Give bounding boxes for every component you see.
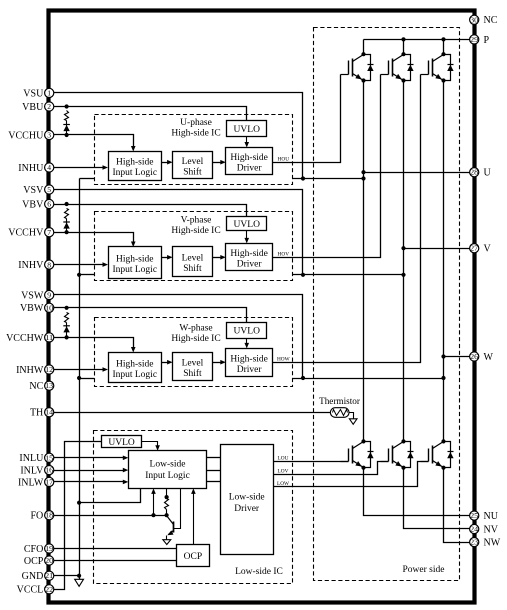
svg-text:4: 4 — [47, 163, 51, 172]
high-side input logic box U — [109, 152, 162, 181]
arrow input logic to level shift U — [162, 162, 169, 164]
low-side driver box — [221, 445, 274, 555]
level shift box W — [173, 353, 213, 381]
bootstrap diode W-phase — [66, 323, 68, 338]
wire GND from pin — [50, 575, 80, 577]
arrow UVLO to driver V — [246, 231, 248, 239]
node P rail col2 — [401, 37, 405, 41]
svg-text:5: 5 — [47, 185, 51, 194]
svg-text:INLW: INLW — [18, 477, 44, 488]
svg-text:26: 26 — [470, 353, 478, 361]
node VCCU junction — [65, 133, 69, 137]
wire INHW from pin into input logic — [50, 369, 105, 371]
wire W-phase IC COM stub — [80, 378, 95, 380]
svg-text:NU: NU — [484, 511, 499, 522]
svg-text:High-side: High-side — [116, 254, 153, 264]
wire LOU gate line — [274, 461, 349, 463]
pin 16 INLV — [45, 466, 54, 475]
svg-text:Driver: Driver — [237, 260, 263, 270]
svg-text:28: 28 — [470, 169, 478, 177]
node VSU drop junction — [301, 176, 305, 180]
node VCCW junction — [65, 335, 69, 339]
wire W-phase VS row to output column — [293, 378, 444, 380]
wire V mid column (emitter to low collector) — [403, 81, 405, 442]
svg-text:Power side: Power side — [403, 565, 445, 575]
pin 8 INHV — [45, 260, 54, 269]
pin 17 INLW — [45, 477, 54, 486]
svg-text:Input Logic: Input Logic — [112, 168, 157, 178]
svg-text:FO: FO — [31, 511, 44, 522]
wire VCCHV from pin into input logic — [50, 233, 134, 243]
wire FO pull-up from input logic — [166, 489, 168, 499]
svg-text:UVLO: UVLO — [108, 438, 135, 448]
wire U-phase VS row to output column — [293, 178, 364, 180]
svg-text:14: 14 — [45, 409, 53, 417]
svg-text:High-side: High-side — [230, 153, 267, 163]
wire W low emitter to NW pin — [444, 468, 475, 543]
node VBW junction — [65, 306, 69, 310]
thermistor body — [330, 408, 349, 418]
svg-text:HOW: HOW — [277, 356, 290, 362]
node U-phase VS row on column — [361, 176, 365, 180]
svg-text:Shift: Shift — [183, 166, 202, 177]
wire input logic to driver V — [207, 470, 221, 472]
ground arrow at FO transistor — [163, 540, 171, 545]
wire input logic to driver W — [207, 481, 221, 483]
wire W mid column (emitter to low collector) — [443, 81, 445, 442]
wire INLU from pin — [50, 457, 125, 459]
arrow UVLO to low-side input logic — [142, 442, 158, 447]
svg-text:19: 19 — [45, 545, 53, 553]
svg-text:27: 27 — [470, 245, 478, 253]
svg-text:High-side: High-side — [230, 354, 267, 364]
pin 23 NW — [470, 538, 479, 547]
node V-phase VS row on column — [401, 273, 405, 277]
wire U mid column (emitter to low collector) — [363, 81, 365, 442]
svg-text:Low-side: Low-side — [229, 492, 265, 502]
pin 29 P — [470, 35, 479, 44]
svg-text:VSW: VSW — [21, 290, 44, 301]
svg-text:Driver: Driver — [237, 365, 263, 375]
svg-text:High-side IC: High-side IC — [171, 334, 220, 344]
high-side driver box W — [226, 349, 273, 377]
svg-text:16: 16 — [45, 467, 53, 475]
wire resistor to FO line — [166, 510, 168, 516]
bootstrap resistor V-phase — [65, 209, 69, 219]
bootstrap diode V-phase — [66, 219, 68, 233]
pin 14 TH — [45, 408, 54, 417]
svg-text:NC: NC — [484, 15, 498, 26]
svg-text:Input Logic: Input Logic — [145, 471, 190, 481]
svg-text:13: 13 — [45, 382, 53, 390]
pin 27 V — [470, 244, 479, 253]
IGBT high-side W with freewheel diode — [421, 74, 429, 76]
pin 5 VSV — [45, 185, 54, 194]
wire VCCL from pin to UVLO — [50, 442, 102, 590]
node COM GND junction — [77, 574, 81, 578]
svg-text:Input Logic: Input Logic — [112, 265, 157, 275]
svg-text:8: 8 — [47, 260, 51, 269]
arrow input logic to level shift V — [162, 257, 169, 259]
svg-text:INLU: INLU — [19, 453, 44, 464]
svg-text:18: 18 — [45, 512, 53, 520]
svg-text:INHV: INHV — [18, 260, 44, 271]
wire VSV from pin to phase output node — [50, 190, 303, 275]
svg-text:W: W — [484, 352, 494, 363]
wire V high-side column — [403, 40, 405, 55]
arrow UVLO to driver W — [246, 339, 248, 344]
node W-phase VS row on column — [441, 376, 445, 380]
wire HOV gate line to high-side IGBT — [273, 75, 381, 258]
svg-text:17: 17 — [45, 478, 53, 486]
pin 3 VCCHU — [45, 130, 54, 139]
svg-text:23: 23 — [470, 539, 478, 547]
OCP box — [177, 545, 210, 567]
low-side IC dashed box — [94, 431, 293, 584]
pin 1 VSU — [45, 88, 54, 97]
svg-text:HOU: HOU — [278, 156, 290, 162]
svg-text:OCP: OCP — [24, 556, 44, 567]
svg-text:7: 7 — [47, 228, 51, 237]
svg-text:VSV: VSV — [23, 185, 44, 196]
svg-text:Low-side: Low-side — [150, 459, 186, 469]
wire input logic to driver U — [207, 457, 221, 459]
wire W output line — [444, 356, 475, 358]
ground arrow at GND — [75, 579, 84, 586]
wire HOW gate line to high-side IGBT — [273, 75, 421, 363]
svg-text:9: 9 — [47, 291, 51, 300]
pin 18 FO — [45, 511, 54, 520]
transistor Q1 open-collector FO — [167, 516, 174, 525]
node FO line resistor junction — [165, 513, 169, 517]
node VCCV junction — [65, 230, 69, 234]
pin 13 NC — [45, 381, 54, 390]
arrow level shift to driver W — [213, 362, 222, 364]
svg-text:Level: Level — [182, 253, 204, 263]
svg-text:VBU: VBU — [22, 102, 44, 113]
UVLO V-phase box — [227, 217, 267, 231]
svg-text:W-phase: W-phase — [179, 324, 212, 334]
wire INHV from pin into input logic — [50, 264, 105, 266]
svg-text:Driver: Driver — [237, 163, 263, 173]
svg-text:OCP: OCP — [184, 552, 202, 562]
svg-text:CFO: CFO — [24, 544, 43, 555]
wire VBU from pin to UVLO — [50, 107, 247, 121]
svg-text:TH: TH — [30, 408, 43, 419]
node COM stub junction V — [77, 273, 81, 277]
bootstrap resistor U-phase — [65, 111, 69, 121]
svg-text:VBW: VBW — [20, 303, 44, 314]
svg-text:VCCHV: VCCHV — [8, 228, 44, 239]
wire INHU from pin into input logic — [50, 167, 105, 169]
pin 10 VBW — [45, 303, 54, 312]
wire VCCHW from pin into input logic — [50, 338, 134, 349]
arrow input logic to level shift W — [162, 362, 169, 364]
svg-text:Thermistor: Thermistor — [319, 396, 360, 406]
IGBT low-side U with freewheel diode — [341, 461, 349, 463]
svg-text:22: 22 — [45, 586, 53, 594]
wire W high-side column — [443, 40, 445, 55]
svg-text:1: 1 — [47, 89, 51, 98]
wire OCP from pin — [50, 560, 177, 562]
svg-text:High-side: High-side — [116, 360, 153, 370]
svg-text:Shift: Shift — [183, 263, 202, 274]
wire FO from pin — [50, 515, 167, 517]
IGBT high-side U with freewheel diode — [341, 74, 349, 76]
wire P rail — [364, 39, 475, 41]
svg-text:6: 6 — [47, 200, 51, 209]
node COM stub junction W — [77, 376, 81, 380]
U-phase high-side IC dashed box — [95, 115, 293, 185]
arrow OCP to input logic — [193, 493, 195, 545]
W-phase high-side IC dashed box — [95, 318, 293, 387]
svg-text:NC: NC — [29, 381, 43, 392]
level shift box U — [173, 152, 213, 179]
pin 2 VBU — [45, 102, 54, 111]
pin 9 VSW — [45, 290, 54, 299]
svg-text:V-phase: V-phase — [181, 216, 212, 226]
svg-text:P: P — [484, 35, 490, 46]
node W junction — [441, 354, 445, 358]
svg-text:High-side: High-side — [230, 249, 267, 259]
svg-text:INHW: INHW — [16, 365, 44, 376]
bootstrap resistor W-phase — [65, 313, 69, 323]
wire VSU from pin to phase output node — [50, 93, 303, 179]
ground arrow at thermistor — [349, 419, 357, 425]
svg-text:Input Logic: Input Logic — [112, 370, 157, 380]
pin 28 U — [470, 168, 479, 177]
node VSW drop junction — [301, 376, 305, 380]
wire V-phase VS row to output column — [293, 274, 404, 276]
svg-text:NV: NV — [484, 524, 499, 535]
arrow UVLO to driver U — [246, 137, 248, 143]
node V junction — [401, 246, 405, 250]
svg-text:15: 15 — [45, 454, 53, 462]
svg-text:U: U — [484, 168, 492, 179]
svg-text:29: 29 — [470, 36, 478, 44]
wire VBW from pin to UVLO — [50, 308, 247, 323]
pin 4 INHU — [45, 163, 54, 172]
svg-text:UVLO: UVLO — [234, 125, 261, 135]
node VBV junction — [65, 202, 69, 206]
bootstrap diode U-phase — [66, 121, 68, 135]
arrow level shift to driver V — [213, 257, 222, 259]
FO pull-up resistor — [165, 499, 169, 510]
svg-text:High-side: High-side — [116, 158, 153, 168]
UVLO low-side box — [102, 436, 142, 448]
V-phase high-side IC dashed box — [95, 212, 293, 281]
svg-text:UVLO: UVLO — [234, 220, 261, 230]
IGBT high-side V with freewheel diode — [381, 74, 389, 76]
pin 22 VCCL — [45, 585, 54, 594]
svg-text:25: 25 — [470, 512, 478, 520]
pin 15 INLU — [45, 453, 54, 462]
arrow level shift to driver U — [213, 162, 222, 164]
pin 11 VCCHW — [45, 333, 54, 342]
wire VCCHU from pin into input logic — [50, 135, 134, 147]
node COM to input-logic — [77, 501, 81, 505]
low-side input logic box — [129, 451, 207, 489]
high-side input logic box V — [109, 247, 162, 279]
svg-text:High-side IC: High-side IC — [171, 129, 220, 139]
node FO pull-up top — [165, 495, 169, 499]
svg-text:VCCL: VCCL — [17, 585, 44, 596]
high-side driver box V — [226, 244, 273, 271]
pin 26 W — [470, 352, 479, 361]
svg-text:Low-side IC: Low-side IC — [235, 567, 283, 577]
wire V low emitter to NV pin — [404, 468, 475, 529]
svg-text:11: 11 — [45, 334, 53, 342]
svg-text:2: 2 — [47, 102, 51, 111]
svg-text:High-side IC: High-side IC — [171, 226, 220, 236]
node U junction — [361, 170, 365, 174]
svg-text:VSU: VSU — [23, 88, 44, 99]
pin 25 NU — [470, 511, 479, 520]
wire TH from pin to thermistor — [50, 412, 331, 414]
pin 12 INHW — [45, 365, 54, 374]
wire U high-side column — [363, 40, 365, 55]
pin 24 NV — [470, 524, 479, 533]
svg-text:LOV: LOV — [278, 468, 289, 474]
svg-text:24: 24 — [470, 526, 478, 534]
wire COM line (high-side IC returns to GND) — [79, 179, 81, 580]
svg-text:HOV: HOV — [278, 252, 290, 258]
node VSV drop junction — [301, 273, 305, 277]
pin 30 NC — [470, 15, 479, 24]
wire VSW from pin to phase output node — [50, 295, 303, 379]
wire U-phase IC COM stub — [80, 178, 95, 180]
wire VBV from pin to UVLO — [50, 205, 247, 217]
pin 20 OCP — [45, 556, 54, 565]
svg-text:VCCHW: VCCHW — [6, 333, 44, 344]
svg-text:INHU: INHU — [18, 163, 44, 174]
svg-text:NW: NW — [484, 538, 501, 549]
svg-text:3: 3 — [47, 131, 51, 140]
svg-text:21: 21 — [45, 572, 53, 580]
node FO junction — [151, 513, 155, 517]
svg-text:Shift: Shift — [183, 368, 202, 379]
node P rail col3 — [441, 37, 445, 41]
wire COM to low-side input logic — [80, 489, 141, 503]
power side dashed box — [314, 28, 460, 581]
svg-text:V: V — [484, 244, 492, 255]
svg-text:Level: Level — [182, 359, 204, 369]
level shift box V — [173, 247, 213, 277]
wire V output line — [404, 248, 475, 250]
UVLO U-phase box — [227, 121, 267, 137]
pin 7 VCCHV — [45, 228, 54, 237]
svg-text:Driver: Driver — [234, 504, 260, 514]
wire INLV from pin — [50, 470, 125, 472]
svg-text:INLV: INLV — [20, 466, 44, 477]
svg-text:20: 20 — [45, 557, 53, 565]
node VBU junction — [65, 104, 69, 108]
svg-text:UVLO: UVLO — [234, 326, 261, 336]
wire INLW from pin — [50, 481, 125, 483]
pin 21 GND — [45, 571, 54, 580]
wire U low emitter to NU pin — [364, 468, 475, 516]
arrow FO feedback into input logic — [153, 493, 155, 516]
svg-text:10: 10 — [45, 304, 53, 312]
wire LOW gate line — [274, 462, 429, 487]
wire thermistor to ground arrow — [349, 413, 354, 419]
svg-text:GND: GND — [22, 571, 44, 582]
svg-text:U-phase: U-phase — [180, 118, 212, 128]
pin 6 VBV — [45, 199, 54, 208]
IGBT low-side V with freewheel diode — [381, 461, 389, 463]
high-side input logic box W — [109, 353, 162, 383]
wire CFO from pin — [50, 548, 177, 550]
svg-text:VBV: VBV — [22, 199, 44, 210]
svg-text:30: 30 — [470, 16, 478, 24]
svg-text:12: 12 — [45, 366, 53, 374]
wire V-phase IC COM stub — [80, 274, 95, 276]
wire U output line — [364, 172, 475, 174]
pin 19 CFO — [45, 544, 54, 553]
UVLO W-phase box — [227, 323, 267, 339]
high-side driver box U — [226, 148, 273, 175]
svg-text:LOU: LOU — [278, 456, 289, 462]
wire LOV gate line — [274, 462, 389, 475]
wire HOU gate line to high-side IGBT — [273, 75, 341, 163]
svg-text:VCCHU: VCCHU — [8, 130, 44, 141]
IGBT low-side W with freewheel diode — [421, 461, 429, 463]
svg-text:Level: Level — [182, 157, 204, 167]
